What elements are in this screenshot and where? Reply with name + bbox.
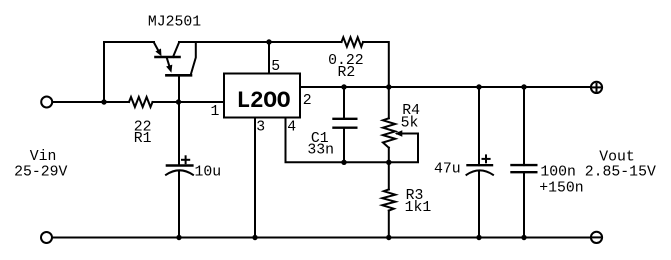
capacitor 10u top plate (167, 164, 193, 166)
node R3 bottom (386, 235, 391, 240)
resistor R2 (342, 37, 364, 46)
capacitor C1 plates (334, 118, 357, 120)
svg-text:3: 3 (256, 120, 265, 136)
node R4 bottom (386, 160, 391, 165)
bottom rail (53, 237, 591, 239)
transistor Q1 base bar 1 (156, 56, 180, 59)
capacitor 10u curved plate (166, 170, 193, 175)
capacitor 47u top plate (468, 164, 493, 166)
svg-text:1: 1 (211, 104, 220, 120)
svg-text:R1: R1 (134, 131, 152, 147)
svg-text:1k1: 1k1 (405, 200, 432, 216)
svg-text:47u: 47u (434, 162, 461, 178)
node 100n bottom (521, 235, 526, 240)
pin 3 wire (254, 118, 256, 238)
capacitor 10u lead bottom (178, 172, 180, 238)
transistor Q1 MJ2501 emitter1 (154, 43, 158, 50)
transistor Q2 emitter2 (167, 58, 170, 67)
resistor R1 (129, 97, 153, 107)
svg-text:R2: R2 (338, 65, 356, 81)
wire base drop to node B (178, 75, 180, 102)
wire node A up (103, 42, 105, 102)
node 100n top (521, 84, 526, 89)
svg-text:2: 2 (303, 93, 312, 109)
pin 4 wire (286, 118, 419, 163)
L200 box U1 (224, 74, 300, 118)
node R4 top (386, 84, 391, 89)
svg-text:5: 5 (271, 59, 280, 75)
node 10u bottom (176, 235, 181, 240)
capacitor 100n+150n plates (512, 164, 537, 166)
node B junction (176, 99, 181, 104)
svg-text:4: 4 (287, 120, 296, 136)
svg-text:10u: 10u (195, 165, 222, 181)
capacitor C1 lead bottom (343, 128, 345, 163)
svg-text:+150n: +150n (539, 181, 583, 197)
input terminal top-left (41, 97, 52, 108)
svg-text:33n: 33n (307, 143, 334, 159)
capacitor C1 lead top (343, 87, 345, 119)
output terminal minus (591, 232, 602, 243)
output terminal plus (591, 82, 602, 93)
capacitor 10u lead top (178, 102, 180, 166)
resistor R3 (388, 162, 390, 189)
svg-text:MJ2501: MJ2501 (148, 15, 201, 31)
svg-text:5k: 5k (401, 116, 419, 132)
svg-text:100n 2.85-15V: 100n 2.85-15V (540, 165, 656, 181)
pin 5 wire (268, 42, 270, 74)
capacitor 47u plus (483, 158, 490, 160)
node 47u top (476, 84, 481, 89)
transistor Q1 collector1 (173, 43, 179, 58)
node 47u bottom (476, 235, 481, 240)
node C1 bottom (341, 160, 346, 165)
svg-text:25-29V: 25-29V (14, 165, 67, 181)
node A junction (101, 99, 106, 104)
capacitor 47u lead bottom (478, 172, 480, 238)
node pin5 junction (266, 39, 271, 44)
svg-text:L2OO: L2OO (237, 88, 291, 114)
potentiometer R4 (388, 87, 390, 118)
svg-text:Vout: Vout (599, 150, 635, 166)
capacitor 100n+150n lead bottom (523, 172, 525, 237)
transistor Q2 collector2 (191, 42, 196, 75)
wiper arrowhead R4 (395, 130, 403, 136)
node C1 top (341, 84, 346, 89)
wire top rail collector to R2 (179, 41, 342, 43)
output wire pin2 (300, 86, 591, 88)
capacitor 100n+150n lead top (523, 87, 525, 165)
svg-text:Vin: Vin (30, 149, 57, 165)
wire input to R1 (53, 101, 129, 103)
transistor Q2 base bar 2 (166, 74, 191, 77)
capacitor 47u lead top (478, 87, 480, 165)
wire R1 to L200 pin1 (153, 101, 225, 103)
wire top left to emitter (104, 41, 154, 43)
capacitor 47u curved plate (467, 170, 494, 174)
capacitor 10u plus (182, 159, 189, 161)
node pin3 bottom (252, 235, 257, 240)
input terminal bottom-left (41, 232, 52, 243)
wire R2 to corner (363, 42, 389, 87)
